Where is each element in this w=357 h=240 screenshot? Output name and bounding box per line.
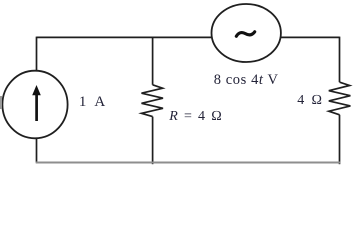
svg-text:R = 4 Ω: R = 4 Ω bbox=[168, 109, 222, 124]
svg-text:8 cos 4t V: 8 cos 4t V bbox=[214, 72, 279, 88]
